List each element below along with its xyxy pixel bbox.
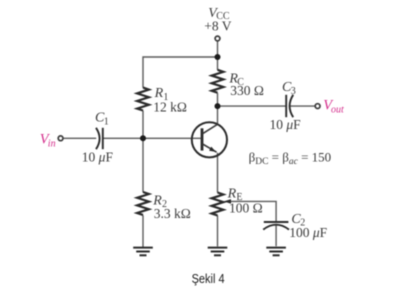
svg-text:1: 1: [104, 116, 109, 127]
svg-text:R: R: [227, 187, 237, 202]
svg-text:out: out: [331, 104, 344, 115]
svg-text:10 μF: 10 μF: [82, 150, 114, 165]
svg-text:330 Ω: 330 Ω: [230, 83, 264, 98]
svg-text:12 kΩ: 12 kΩ: [153, 100, 187, 115]
svg-text:3.3 kΩ: 3.3 kΩ: [154, 206, 191, 221]
svg-text:Şekil 4: Şekil 4: [192, 271, 225, 286]
svg-text:βDC = βac = 150: βDC = βac = 150: [249, 150, 332, 168]
svg-text:100 μF: 100 μF: [289, 225, 327, 240]
svg-text:100 Ω: 100 Ω: [229, 201, 263, 216]
svg-text:in: in: [48, 138, 56, 149]
svg-text:+8 V: +8 V: [204, 19, 231, 34]
svg-text:10 μF: 10 μF: [270, 117, 302, 132]
svg-text:3: 3: [291, 86, 296, 97]
